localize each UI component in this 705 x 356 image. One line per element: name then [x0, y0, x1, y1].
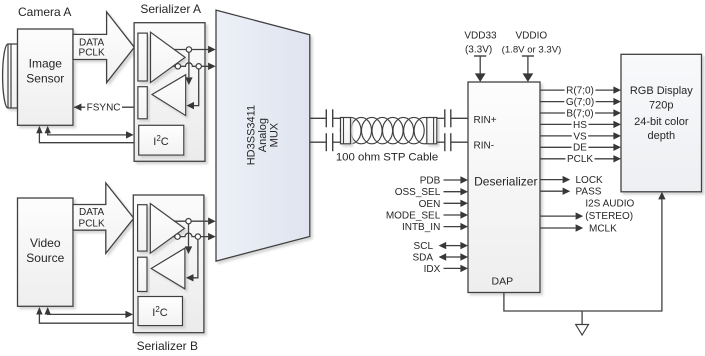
- wire serializer A out- to MUX (with hop): [174, 63, 209, 66]
- svg-text:Video: Video: [30, 236, 61, 250]
- wire RIN- (MUX to cap): [310, 141, 327, 143]
- node circle A1: [186, 47, 191, 52]
- serializer B output buffer rect (bottom): [138, 257, 147, 291]
- wire I2C-B lower: [39, 309, 133, 323]
- serializer A output buffer rect (bottom): [138, 87, 147, 119]
- wire/pin HS: [540, 123, 614, 125]
- svg-text:IDX: IDX: [424, 264, 441, 275]
- svg-text:PDB: PDB: [420, 176, 441, 187]
- block arrow DATA/PCLK (Video Source to Serializer B): [73, 183, 134, 253]
- wire serializer A down-branch 2: [194, 67, 199, 106]
- svg-text:LOCK: LOCK: [576, 175, 604, 186]
- svg-text:RIN+: RIN+: [474, 115, 497, 126]
- svg-text:B(7;0): B(7;0): [566, 108, 593, 119]
- wire RIN+ (MUX to cap): [310, 117, 327, 119]
- svg-text:SDA: SDA: [412, 253, 433, 264]
- svg-text:PCLK: PCLK: [79, 48, 105, 59]
- svg-text:720p: 720p: [649, 99, 673, 111]
- capacitor C3 (RIN+ right): [444, 109, 446, 127]
- svg-text:PASS: PASS: [576, 187, 602, 198]
- svg-text:Serializer B: Serializer B: [137, 339, 198, 353]
- wire/pin PASS: [540, 190, 563, 192]
- svg-text:INTB_IN: INTB_IN: [402, 222, 440, 233]
- svg-text:Analog: Analog: [257, 118, 269, 152]
- wire/pin MCLK: [540, 227, 576, 229]
- capacitor C2 (RIN- left): [325, 133, 327, 151]
- svg-text:VS: VS: [573, 131, 587, 142]
- block arrow DATA/PCLK (Camera A to Serializer A): [73, 12, 134, 83]
- wire I2S: [540, 215, 576, 217]
- svg-text:OEN: OEN: [419, 199, 441, 210]
- svg-text:(STEREO): (STEREO): [585, 211, 633, 222]
- svg-text:I2C: I2C: [152, 305, 168, 319]
- node circle A3: [196, 64, 201, 69]
- svg-text:PCLK: PCLK: [79, 218, 105, 229]
- wire DAP to display: [504, 199, 662, 311]
- svg-text:100 ohm STP Cable: 100 ohm STP Cable: [336, 152, 438, 164]
- wire serializer B out- to MUX (with hop): [173, 233, 208, 236]
- wire I2C-A lower: [39, 128, 134, 143]
- wire/pin VS: [540, 135, 614, 137]
- svg-text:Source: Source: [26, 251, 64, 265]
- wire serializer B down-branch 1: [188, 222, 190, 247]
- svg-text:VDDIO: VDDIO: [515, 31, 547, 42]
- wire/pin B(7;0): [540, 112, 614, 114]
- video source box: [18, 198, 74, 306]
- wire/pin SCL (bidirectional): [446, 245, 461, 247]
- svg-text:RIN-: RIN-: [474, 141, 495, 152]
- svg-text:MCLK: MCLK: [589, 224, 617, 235]
- HD3SS3411 analog MUX: [216, 10, 310, 261]
- wire/pin OEN: [444, 202, 461, 204]
- svg-text:Serializer A: Serializer A: [140, 2, 201, 16]
- capacitor C1 (RIN+ left): [325, 109, 327, 127]
- svg-text:Sensor: Sensor: [26, 72, 64, 86]
- svg-text:(3.3V): (3.3V): [465, 45, 492, 56]
- svg-text:I2S AUDIO: I2S AUDIO: [585, 199, 634, 210]
- wire/pin SDA (bidirectional): [446, 256, 461, 258]
- svg-text:depth: depth: [648, 130, 676, 142]
- wire RIN+ (cable to cap): [437, 117, 445, 119]
- svg-text:OSS_SEL: OSS_SEL: [395, 187, 441, 198]
- serializer B receiver triangle: [151, 248, 185, 289]
- wire RIN- (cable to cap): [437, 141, 445, 143]
- node circle B3: [195, 234, 200, 239]
- wire I2C-B upper (bidirectional to video source): [48, 309, 128, 314]
- wire serializer A down-branch 1: [188, 50, 190, 77]
- image sensor box (Camera A): [18, 29, 74, 125]
- serializer B driver triangle: [150, 204, 184, 254]
- wire RIN+ (cap to cable): [333, 117, 342, 119]
- svg-text:R(7;0): R(7;0): [566, 86, 594, 97]
- wire/pin DE: [540, 146, 614, 148]
- svg-text:(1.8V or 3.3V): (1.8V or 3.3V): [502, 45, 562, 56]
- wire/pin INTB_IN: [444, 226, 461, 228]
- svg-text:I2C: I2C: [153, 134, 169, 148]
- serializer B I2C block: [138, 297, 183, 326]
- svg-text:DE: DE: [573, 143, 587, 154]
- svg-text:HD3SS3411: HD3SS3411: [245, 105, 257, 165]
- serializer A driver triangle: [151, 32, 186, 82]
- wire RIN- (cap to deserializer): [451, 141, 468, 143]
- svg-text:Image: Image: [29, 57, 63, 71]
- svg-text:DATA: DATA: [79, 207, 105, 218]
- svg-text:24-bit color: 24-bit color: [634, 116, 689, 128]
- svg-text:Camera A: Camera A: [18, 5, 71, 19]
- svg-text:VDD33: VDD33: [464, 31, 497, 42]
- svg-text:HS: HS: [573, 120, 587, 131]
- svg-text:G(7;0): G(7;0): [566, 97, 594, 108]
- capacitor C4 (RIN- right): [444, 133, 446, 151]
- 100 ohm STP cable coil: [340, 117, 361, 143]
- serializer A input buffer rect (top): [138, 33, 147, 81]
- deserializer box: [468, 82, 540, 293]
- serializer A box: [134, 23, 205, 162]
- serializer A receiver triangle: [152, 75, 186, 116]
- svg-text:DAP: DAP: [492, 275, 514, 287]
- wire/pin IDX: [444, 267, 461, 269]
- wire serializer B out+ to MUX: [174, 220, 208, 222]
- serializer B input buffer rect (top): [138, 205, 147, 251]
- node circle B2: [175, 234, 180, 239]
- RGB display box: [621, 54, 702, 192]
- wire FSYNC: [74, 106, 134, 108]
- wire/pin MODE_SEL: [444, 214, 461, 216]
- wire serializer B down-branch 2: [193, 237, 198, 277]
- wire/pin LOCK: [540, 179, 563, 181]
- svg-text:MODE_SEL: MODE_SEL: [386, 211, 441, 222]
- wire/pin R(7;0): [540, 89, 614, 91]
- wire RIN+ (cap to deserializer): [451, 117, 468, 119]
- svg-text:RGB Display: RGB Display: [630, 85, 693, 97]
- svg-text:PCLK: PCLK: [567, 154, 593, 165]
- wire RIN- (cap to cable): [333, 141, 342, 143]
- wire/pin PCLK: [540, 158, 614, 160]
- node circle B1: [186, 219, 191, 224]
- svg-text:MUX: MUX: [269, 122, 281, 147]
- node circle A2: [175, 64, 180, 69]
- wire/pin G(7;0): [540, 101, 614, 103]
- wire/pin PDB: [444, 179, 461, 181]
- wire I2C-A upper (bidirectional to sensor): [48, 128, 128, 135]
- ground: [581, 311, 583, 325]
- svg-text:FSYNC: FSYNC: [87, 103, 121, 114]
- wire serializer A out+ to MUX: [174, 49, 208, 51]
- serializer A I2C block: [139, 125, 184, 155]
- svg-text:SCL: SCL: [414, 241, 434, 252]
- wire/pin OSS_SEL: [444, 191, 461, 193]
- camera lens: [3, 44, 18, 108]
- serializer B box: [133, 195, 204, 333]
- svg-text:Deserializer: Deserializer: [474, 175, 537, 189]
